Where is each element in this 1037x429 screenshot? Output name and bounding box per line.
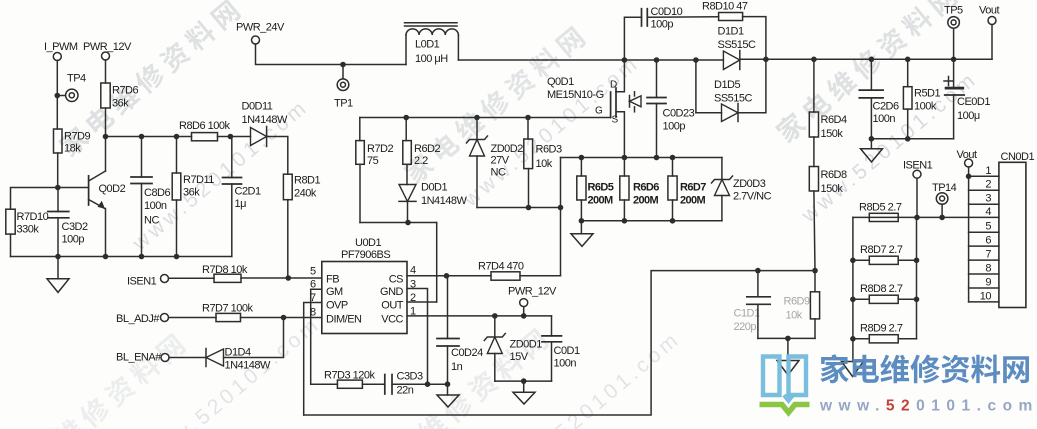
wire gate rail y=117.5 <box>360 115 611 121</box>
svg-text:D1D4: D1D4 <box>225 347 252 359</box>
resistor R7D8 10k <box>169 264 248 282</box>
svg-text:22n: 22n <box>397 385 414 397</box>
wire R7D7 to DIM/EN pin <box>241 315 322 321</box>
svg-text:2: 2 <box>985 179 991 191</box>
svg-text:ISEN1: ISEN1 <box>127 276 157 288</box>
capacitor C0D23 100p <box>647 60 695 158</box>
svg-text:R7D11: R7D11 <box>183 174 214 186</box>
transistor Q0D2 <box>55 137 126 257</box>
svg-text:R6D2: R6D2 <box>414 143 441 155</box>
pin 2 of CN0D1 <box>969 179 999 191</box>
svg-text:C0D24: C0D24 <box>451 347 483 359</box>
svg-text:100n: 100n <box>873 113 896 125</box>
node BL_ADJ# terminal <box>116 313 169 325</box>
svg-text:S: S <box>612 115 619 126</box>
ground symbol under output filter <box>861 139 883 162</box>
svg-text:100n: 100n <box>554 358 577 370</box>
wire divider ground row y=338.4 <box>758 336 815 342</box>
resistor R8D5 2.7 <box>859 202 902 222</box>
svg-text:1μ: 1μ <box>235 198 247 210</box>
pin 5 of CN0D1 <box>969 221 999 233</box>
svg-text:R8D9 2.7: R8D9 2.7 <box>860 323 903 335</box>
svg-text:R6D6: R6D6 <box>633 182 659 194</box>
svg-text:2.7V/NC: 2.7V/NC <box>733 191 772 203</box>
svg-text:100n: 100n <box>144 200 167 212</box>
pin 4 of CN0D1 <box>985 206 991 218</box>
diode D0D11 1N4148W <box>242 101 289 147</box>
svg-text:7: 7 <box>985 249 991 261</box>
svg-text:100p: 100p <box>663 121 686 133</box>
wire D1D4 to BL_ADJ node <box>224 318 284 358</box>
svg-text:150k: 150k <box>821 128 844 140</box>
svg-text:I_PWM: I_PWM <box>44 41 78 53</box>
svg-text:100 μH: 100 μH <box>415 53 448 65</box>
resistor R7D10 330k <box>6 209 49 235</box>
wire base node left to R7D10 <box>11 188 58 210</box>
zener ZD0D1 15V <box>484 316 542 381</box>
svg-text:ZD0D2: ZD0D2 <box>491 143 524 155</box>
svg-text:BL_ADJ#: BL_ADJ# <box>116 313 160 325</box>
svg-text:1n: 1n <box>451 361 463 373</box>
resistor R6D8 150k <box>809 137 847 271</box>
svg-text:C1D1: C1D1 <box>734 308 761 320</box>
svg-text:75: 75 <box>367 155 379 167</box>
resistor R7D9 18k <box>54 129 91 155</box>
svg-text:D0D11: D0D11 <box>242 101 273 113</box>
pin 5 FB <box>310 266 339 286</box>
svg-text:1N4148W: 1N4148W <box>421 195 468 207</box>
svg-text:CS: CS <box>389 274 403 286</box>
svg-text:R6D5: R6D5 <box>588 182 614 194</box>
node PWR_12V (VCC) terminal <box>508 286 557 316</box>
ground symbol under divider <box>777 338 799 375</box>
svg-text:100μ: 100μ <box>957 110 980 122</box>
wire VCC ground row <box>495 378 552 384</box>
svg-text:C3D2: C3D2 <box>62 221 89 233</box>
svg-text:R6D8: R6D8 <box>821 169 848 181</box>
resistor R8D8 2.7 <box>853 283 917 303</box>
transistor Q0D1 ME15N10-G (MOSFET) <box>547 60 641 158</box>
svg-text:ZD0D1: ZD0D1 <box>510 339 543 351</box>
resistor R8D9 2.7 <box>853 323 917 343</box>
capacitor C3D3 22n <box>362 371 450 397</box>
resistor R7D3 120k (compensation) <box>311 370 376 389</box>
wire R7D6 bottom to node row <box>105 108 107 137</box>
wire I_PWM vertical down to R7D9 <box>56 61 58 130</box>
svg-text:GM: GM <box>326 286 343 298</box>
svg-text:C2D6: C2D6 <box>873 101 900 113</box>
pin 7 OVP <box>304 292 348 415</box>
svg-text:220p: 220p <box>734 321 757 333</box>
diode D0D1 1N4148W <box>399 182 468 223</box>
svg-text:DIM/EN: DIM/EN <box>326 314 362 326</box>
svg-text:240k: 240k <box>294 188 317 200</box>
node ISEN1 (left) terminal <box>127 275 169 288</box>
resistor R7D4 470 (CS filter) <box>447 261 561 281</box>
diode D1D1 SS515C (in rail) <box>718 26 757 70</box>
svg-text:CE0D1: CE0D1 <box>957 96 990 108</box>
svg-text:C0D23: C0D23 <box>663 108 695 120</box>
svg-text:R7D2: R7D2 <box>367 143 394 155</box>
pin 8 DIM/EN <box>310 307 362 326</box>
ground symbol under sense resistors <box>571 221 593 247</box>
test point TP5 <box>944 5 963 60</box>
svg-text:R6D7: R6D7 <box>680 182 706 194</box>
node PWR_12V terminal and label <box>83 41 132 60</box>
resistor R8D7 2.7 <box>853 244 917 264</box>
svg-text:L0D1: L0D1 <box>415 39 440 51</box>
svg-text:C8D6: C8D6 <box>144 187 171 199</box>
pin 3 of CN0D1 <box>969 193 999 205</box>
ground symbol under VCC branch <box>513 381 535 404</box>
resistor R8D10 47 <box>702 1 766 60</box>
connector CN0D1 body <box>999 151 1035 308</box>
wire output ground row y=138.8 <box>869 136 954 142</box>
svg-text:10k: 10k <box>786 310 803 322</box>
wire R8D6 to node X <box>218 134 251 140</box>
pin 8 of CN0D1 <box>969 263 999 275</box>
svg-text:9: 9 <box>985 277 991 289</box>
zener ZD0D3 2.7V/NC <box>712 158 772 221</box>
pin 6 of CN0D1 <box>969 235 999 247</box>
logo: brand characters <box>820 354 1029 383</box>
svg-text:4: 4 <box>985 206 991 218</box>
wire OUT riser <box>436 223 438 303</box>
resistor R5D1 100k <box>903 59 940 139</box>
svg-text:PWR_12V: PWR_12V <box>508 286 557 298</box>
svg-text:C0D1: C0D1 <box>554 345 581 357</box>
test point TP4 <box>55 73 87 102</box>
svg-text:200M: 200M <box>633 195 659 207</box>
resistor R6D6 200M <box>620 158 659 221</box>
pin 4 CS <box>389 265 450 286</box>
svg-text:VCC: VCC <box>381 314 403 326</box>
capacitor C0D10 100p (snubber) <box>624 6 718 60</box>
svg-text:ZD0D3: ZD0D3 <box>733 178 766 190</box>
node Vout (connector) terminal <box>957 149 977 179</box>
capacitor C0D1 100n <box>542 316 580 381</box>
capacitor CE0D1 100u (electrolytic, +) <box>944 59 990 139</box>
capacitor C8D6 100n NC <box>131 137 171 257</box>
resistor R6D2 2.2 <box>403 118 441 185</box>
svg-text:8: 8 <box>985 263 991 275</box>
wire source sense riser x=560.5 <box>560 158 562 276</box>
wire PWR_24V down and right to inductor <box>256 44 407 67</box>
svg-text:TP5: TP5 <box>944 5 963 17</box>
svg-text:CN0D1: CN0D1 <box>1001 151 1035 163</box>
wire left bus of sense resistors <box>850 217 856 341</box>
resistor R7D6 36k <box>101 83 139 110</box>
svg-text:ME15N10-G: ME15N10-G <box>547 89 604 101</box>
capacitor C2D6 100n <box>859 59 899 139</box>
ground symbol under C0D24 <box>437 384 459 407</box>
svg-text:R5D1: R5D1 <box>914 88 941 100</box>
svg-text:G: G <box>595 106 603 117</box>
svg-text:36k: 36k <box>112 98 129 110</box>
svg-text:R8D7 2.7: R8D7 2.7 <box>860 244 903 256</box>
wire sense row y=217.4 (to connector pin 4) <box>853 215 999 221</box>
svg-text:200M: 200M <box>588 195 614 207</box>
svg-text:200M: 200M <box>680 195 706 207</box>
svg-text:R8D6 100k: R8D6 100k <box>179 120 231 132</box>
resistor R8D6 100k <box>179 120 231 141</box>
wire right bus of sense resistors <box>914 217 920 338</box>
pin 3 GND <box>380 279 427 385</box>
node ISEN1 (right) terminal <box>903 160 933 218</box>
svg-text:TP1: TP1 <box>334 98 353 110</box>
svg-text:D0D1: D0D1 <box>421 182 448 194</box>
wire horizontal node row y=136.5 <box>103 134 192 140</box>
svg-text:C0D10: C0D10 <box>651 6 683 18</box>
node Vout (top right) terminal <box>979 5 999 60</box>
resistor R6D5 200M <box>577 158 614 221</box>
wire R7D10 bottom to ground row <box>10 234 12 256</box>
svg-text:C2D1: C2D1 <box>235 186 262 198</box>
svg-text:4: 4 <box>410 265 416 277</box>
svg-text:PF7906BS: PF7906BS <box>341 249 390 261</box>
wire D0D11 cathode to R8D1 top <box>267 137 288 175</box>
svg-text:NC: NC <box>144 215 159 227</box>
svg-text:D1D1: D1D1 <box>718 26 745 38</box>
svg-text:Vout: Vout <box>979 5 999 17</box>
svg-text:GND: GND <box>380 286 404 298</box>
pin 1 VCC <box>381 306 551 326</box>
svg-text:Q0D1: Q0D1 <box>547 76 574 88</box>
svg-text:FB: FB <box>326 274 339 286</box>
svg-text:3: 3 <box>985 193 991 205</box>
svg-text:10: 10 <box>980 290 992 302</box>
svg-text:5: 5 <box>310 266 316 278</box>
svg-text:R8D5 2.7: R8D5 2.7 <box>859 202 902 214</box>
resistor R6D4 150k <box>809 59 847 140</box>
svg-text:R8D10 47: R8D10 47 <box>702 1 748 13</box>
test point TP1 <box>334 65 353 110</box>
wire OUT drive row y=222.5 <box>360 220 437 226</box>
pin 9 of CN0D1 <box>969 277 999 289</box>
logo: green underline swoosh <box>760 405 810 413</box>
pin 6 GM <box>310 279 343 385</box>
logo: blue open-book icon (brand mark) <box>763 357 806 401</box>
svg-text:TP4: TP4 <box>67 73 86 85</box>
svg-text:150k: 150k <box>821 183 844 195</box>
svg-text:C3D3: C3D3 <box>397 371 424 383</box>
svg-text:SS515C: SS515C <box>714 93 753 105</box>
wire connector pin bus <box>968 176 970 302</box>
wire source row y=157.5 <box>561 155 722 161</box>
svg-text:R7D6: R7D6 <box>112 85 139 97</box>
wire ground row y=256.5 <box>11 254 232 260</box>
svg-text:www.520101.com: www.520101.com <box>819 398 1037 415</box>
capacitor C0D24 1n <box>437 276 483 384</box>
wire R7D8 to FB pin <box>241 275 322 281</box>
svg-text:R7D4 470: R7D4 470 <box>478 261 524 273</box>
resistor R6D7 200M <box>668 158 706 221</box>
svg-text:R7D10: R7D10 <box>17 211 49 223</box>
svg-text:TP14: TP14 <box>932 182 957 194</box>
capacitor C2D1 1u <box>223 137 262 257</box>
wire output rail to Vout corner <box>740 57 992 63</box>
svg-text:Q0D2: Q0D2 <box>99 183 126 195</box>
svg-text:OUT: OUT <box>381 300 404 312</box>
wire R8D1 bottom to FB node <box>287 200 289 278</box>
wire PWR_12V down to R7D6 <box>105 60 107 83</box>
svg-text:6: 6 <box>985 235 991 247</box>
svg-text:27V: 27V <box>491 155 510 167</box>
svg-text:PWR_24V: PWR_24V <box>236 22 285 34</box>
diode D1D4 1N4148W <box>169 347 271 372</box>
pin 7 of CN0D1 <box>969 249 999 261</box>
ground symbol left <box>47 257 69 293</box>
resistor R7D7 100k <box>169 303 254 322</box>
svg-text:NC: NC <box>491 167 506 179</box>
wire sense bottom row y=220.8 <box>579 218 722 224</box>
svg-text:330k: 330k <box>17 224 40 236</box>
svg-text:8: 8 <box>310 307 316 319</box>
node I_PWM terminal and label <box>44 41 78 61</box>
resistor R6D3 10k <box>524 118 562 208</box>
resistor R7D11 36k <box>172 137 214 257</box>
pin 2 OUT <box>381 292 436 312</box>
pin 1 of CN0D1 <box>969 165 999 177</box>
wire OVP bottom run y=416 to divider <box>304 268 818 415</box>
svg-text:U0D1: U0D1 <box>355 237 382 249</box>
svg-text:1N4148W: 1N4148W <box>225 360 272 372</box>
svg-text:100k: 100k <box>914 101 937 113</box>
capacitor C3D2 100p <box>48 188 88 257</box>
svg-text:18k: 18k <box>64 143 81 155</box>
svg-text:2.2: 2.2 <box>414 155 428 167</box>
svg-text:R6D9: R6D9 <box>784 296 811 308</box>
svg-text:1N4148W: 1N4148W <box>242 114 289 126</box>
wire R7D9 bottom to base node <box>57 153 59 188</box>
svg-text:OVP: OVP <box>326 300 348 312</box>
svg-text:R8D8 2.7: R8D8 2.7 <box>860 283 903 295</box>
zener ZD0D2 27V NC <box>467 118 524 208</box>
svg-text:1: 1 <box>985 165 991 177</box>
svg-text:100p: 100p <box>62 234 85 246</box>
wire gate-source return row y=207.5 <box>477 205 563 211</box>
svg-text:5: 5 <box>985 221 991 233</box>
svg-text:SS515C: SS515C <box>718 39 757 51</box>
svg-text:R7D9: R7D9 <box>64 131 91 143</box>
resistor R8D1 240k <box>283 174 320 200</box>
op-amp U0D1 PF7906BS (control IC body) <box>322 237 407 334</box>
resistor R6D9 10k <box>784 271 820 339</box>
resistor R7D2 75 <box>356 118 394 223</box>
svg-text:100p: 100p <box>651 19 674 31</box>
svg-text:PWR_12V: PWR_12V <box>83 41 132 53</box>
node BL_ENA# terminal <box>116 352 169 364</box>
ground symbol under left bus <box>842 339 864 377</box>
svg-text:10k: 10k <box>536 158 553 170</box>
svg-text:R8D1: R8D1 <box>294 175 321 187</box>
svg-text:BL_ENA#: BL_ENA# <box>116 352 162 364</box>
diode D1D5 SS515C (parallel branch) <box>696 59 766 121</box>
pin 10 of CN0D1 <box>969 290 999 302</box>
capacitor C1D1 220p <box>734 271 771 339</box>
inductor L0D1 100uH <box>405 23 459 65</box>
wire switch-node rail y=60 <box>458 57 723 63</box>
svg-text:R6D4: R6D4 <box>821 114 848 126</box>
node PWR_24V terminal <box>236 22 285 45</box>
svg-text:R6D3: R6D3 <box>536 144 563 156</box>
svg-text:36k: 36k <box>183 187 200 199</box>
svg-text:D1D5: D1D5 <box>714 79 741 91</box>
test point TP14 <box>932 182 957 217</box>
svg-text:15V: 15V <box>510 351 529 363</box>
